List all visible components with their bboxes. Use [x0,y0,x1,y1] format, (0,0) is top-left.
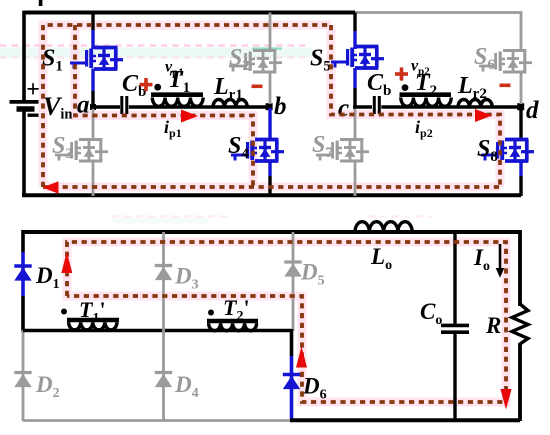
top rail gray [355,13,521,52]
diode D6 [283,375,300,390]
dashed loop bottom circuit [67,242,506,402]
svg-text:T1': T1' [79,297,106,326]
arrow at load (down) [500,389,511,410]
S3 source wire [92,161,95,197]
svg-text:d: d [526,97,539,124]
top rail black [24,11,355,15]
transformer T1 winding [152,98,203,107]
bottom rail [22,193,521,197]
ghost teal segment at S2 [252,47,282,49]
bottom rail black [290,418,520,422]
battery Vin long plate [10,100,39,104]
left rail upper [22,11,26,101]
ghost cyan band overlay [0,48,312,58]
pink halo under dashed loop (bottom circuit) [67,242,506,402]
wire: shared bottom return [43,185,500,189]
node d [517,103,524,110]
ghost pink dashed line upper [0,44,310,47]
battery Vin short plate [17,106,35,111]
pink halo under dashed loops (top circuit) [43,25,500,187]
arrow at D1 (up) [61,252,72,273]
transistor S7 [316,140,369,162]
S7 source wire [354,161,357,197]
transistor S4 [231,140,284,162]
transistor S5 [331,47,384,69]
transformer T1' winding [69,322,117,330]
transformer T1' core bar [67,318,119,323]
leg1 drain wire S1 [91,13,94,31]
battery minus sign [28,114,39,117]
diode D1 [14,266,31,281]
S6 source wire [520,71,523,104]
inductor Lr2 [458,100,492,107]
left edge to tee black [21,296,25,332]
transformer T2 winding [401,98,451,107]
transformer T2' core bar [207,319,258,324]
svg-text:b: b [274,93,287,120]
ghost pink dashed line lower [0,56,310,58]
diode D3 [155,266,172,281]
transistor S1 [70,48,123,70]
leg2 lower: S4 drain [268,108,271,141]
Io arrow [499,244,502,270]
T1' polarity dot [61,309,67,315]
leg4 upper: S6 [479,51,532,73]
S5 source wire [353,68,356,88]
red plus (vp2 polarity) [395,67,408,80]
diode D4 [155,373,172,388]
svg-text:T2': T2' [223,295,250,324]
dashed loop top circuit [43,25,500,187]
T2 polarity dot [402,84,409,91]
left edge lower gray [22,330,25,421]
wire a to Cb [91,105,120,109]
inductor Lr1 [213,100,247,107]
wire Cb2 to d [381,105,520,109]
top rail bottom circuit [23,230,520,234]
arrow ip1 [181,110,198,123]
svg-text:R: R [485,313,501,338]
leg D5 gray upper [292,232,295,331]
capacitor Co leg upper [453,232,456,324]
transformer T2 core bar [400,92,452,97]
right edge upper [518,230,522,306]
red minus (vp2) [500,84,511,88]
capacitor Co plates [441,325,469,332]
S2 source wire [269,71,272,104]
transistor S2 [229,51,282,73]
red plus (vp1 polarity) [140,78,153,91]
T1 polarity dot [154,84,161,91]
right edge lower [518,343,522,421]
wire: S5 branch down + ip2 path + S8 branch down [331,25,500,187]
diode D1 wire blue [21,252,25,296]
leg2 upper: S2 drain [269,13,272,52]
leg3 drain wire S5 [353,13,356,32]
leg3 lower: S7 drain [354,107,357,141]
small crop tick at top edge [39,0,43,6]
svg-text:+: + [26,77,40,103]
svg-text:c: c [338,95,349,122]
bottom rail gray [23,419,292,422]
leg D6: corner from middle wire down [290,329,294,356]
capacitor Co leg lower [453,334,456,420]
S4 source wire [268,161,271,177]
left edge upper black [21,230,25,252]
wire c to Cb2 [353,105,372,109]
diode D2 [14,373,31,388]
diode D5 [284,262,301,277]
inductor Lo [355,222,412,232]
red minus (vp1) [252,85,263,89]
node a [90,104,96,110]
arrow ip2 [475,109,492,122]
ghost fragment dashes mid page [112,215,232,217]
S8 source wire [519,161,522,177]
wire: S1 branch down + ip1 path + S4 branch down [75,25,253,187]
leg4 lower: S8 drain [519,108,522,141]
capacitor Cb (right cell) [374,96,379,114]
transformer T2' winding [209,323,257,331]
transistor S3 [55,140,108,162]
arrow at D6 (up) [296,347,307,368]
resistor R zigzag [512,304,528,344]
leg1 lower: S3 drain [92,107,95,140]
capacitor Cb (left cell) [122,96,127,114]
node b [266,103,273,110]
transformer T1 core bar [151,92,203,97]
left rail lower [22,112,26,198]
arrow return (bottom left) [43,181,59,193]
secondary middle wire [23,329,292,333]
S1 source wire [91,69,94,92]
wire: left vertical + top horizontal of loop1 [43,25,331,187]
leg D3/D4 gray [162,232,165,421]
transistor S8 [481,140,534,162]
wire Cb to b [129,105,269,109]
T2' polarity dot [208,310,214,316]
